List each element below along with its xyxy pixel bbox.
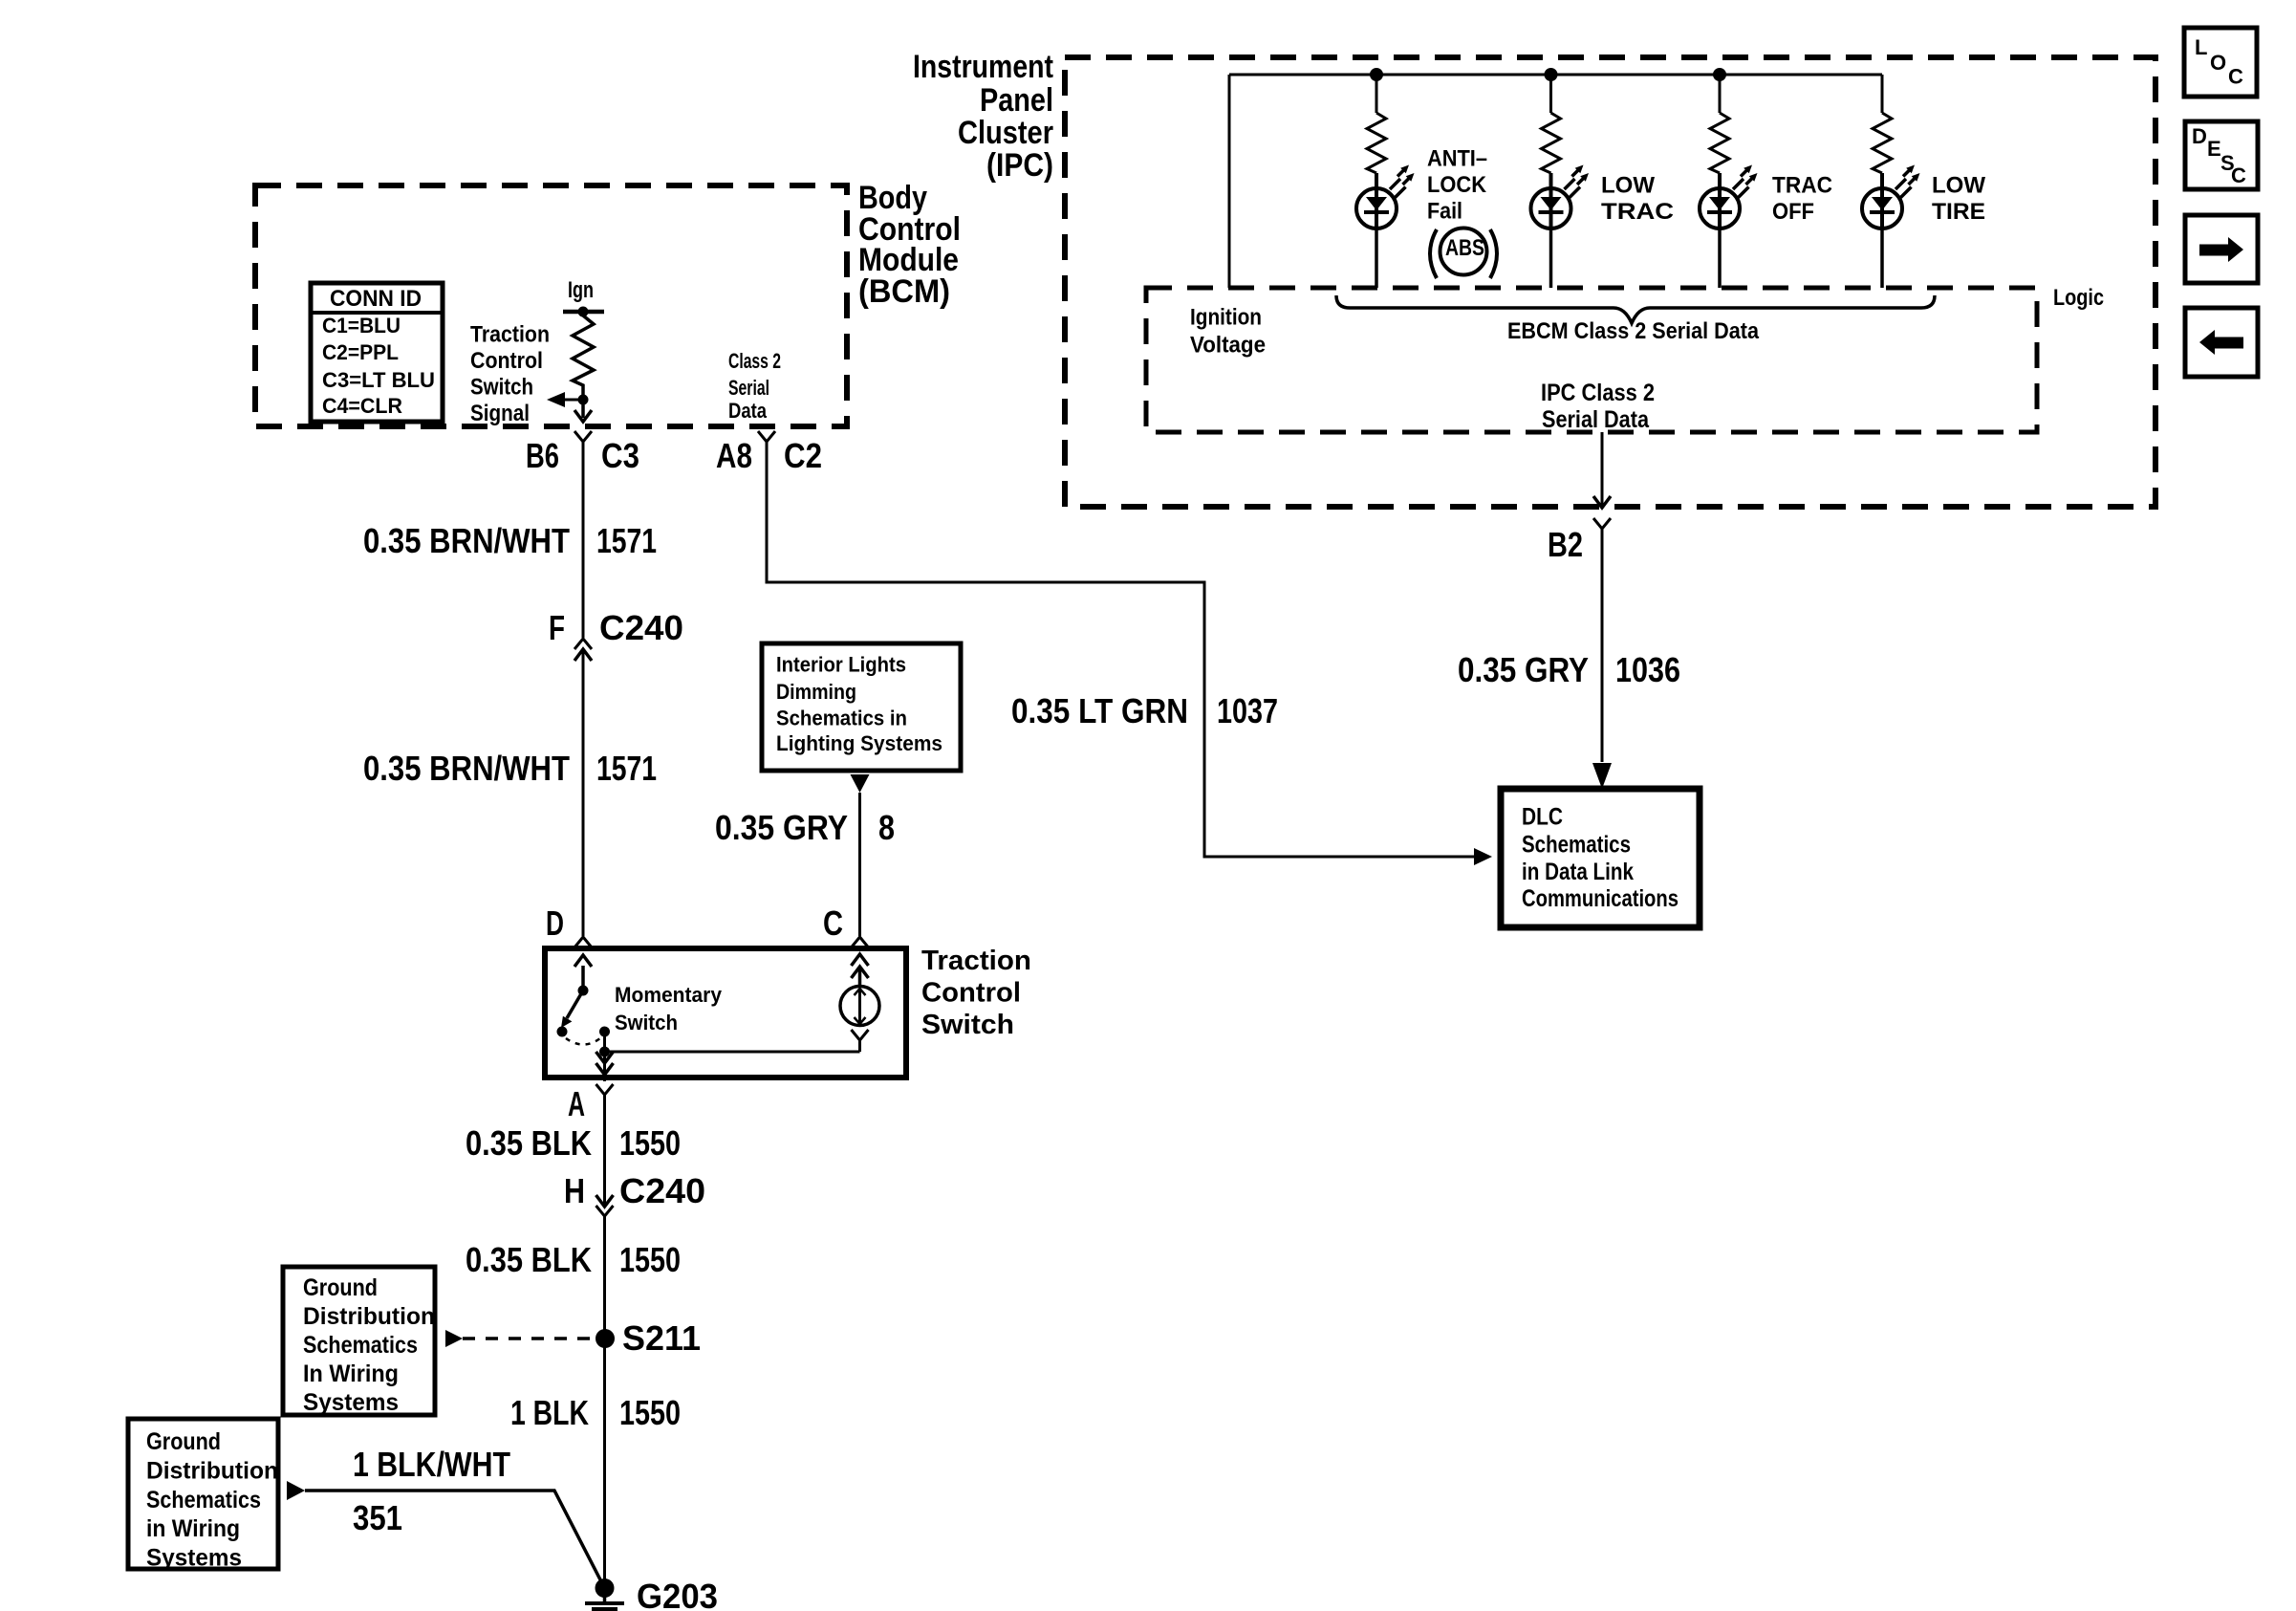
svg-text:1571: 1571 [596,749,657,788]
svg-text:0.35 GRY: 0.35 GRY [1458,650,1589,689]
svg-text:C2=PPL: C2=PPL [322,340,399,364]
svg-text:C240: C240 [619,1171,705,1210]
svg-text:S211: S211 [622,1318,701,1358]
svg-text:O: O [2210,51,2226,75]
svg-text:IPC Class 2: IPC Class 2 [1541,380,1655,406]
svg-text:Interior Lights: Interior Lights [776,653,906,677]
svg-text:H: H [564,1171,585,1210]
svg-text:Communications: Communications [1522,885,1679,912]
svg-text:Systems: Systems [146,1545,242,1572]
svg-text:Fail: Fail [1427,199,1462,225]
svg-text:Dimming: Dimming [776,680,856,704]
svg-text:C1=BLU: C1=BLU [322,314,401,337]
svg-text:Switch: Switch [615,1011,678,1034]
svg-text:B6: B6 [526,436,559,475]
svg-text:in Wiring: in Wiring [146,1515,240,1542]
svg-text:LOW: LOW [1932,173,1985,199]
svg-text:in Data Link: in Data Link [1522,859,1634,885]
svg-text:Ground: Ground [303,1274,378,1301]
svg-text:B2: B2 [1548,525,1583,564]
svg-text:Traction: Traction [470,322,550,348]
svg-text:Serial: Serial [728,376,769,400]
svg-text:CONN ID: CONN ID [330,286,422,312]
svg-text:0.35 BLK: 0.35 BLK [466,1123,592,1163]
svg-text:Logic: Logic [2053,285,2104,311]
svg-text:351: 351 [353,1498,402,1537]
svg-text:Control: Control [921,978,1021,1009]
svg-text:TRAC: TRAC [1772,173,1832,199]
svg-text:1037: 1037 [1217,691,1278,730]
svg-text:C4=CLR: C4=CLR [322,394,402,418]
svg-text:Systems: Systems [303,1389,399,1416]
svg-text:L: L [2195,35,2207,59]
svg-text:(BCM): (BCM) [858,273,950,310]
svg-text:D: D [546,903,564,943]
svg-text:Traction: Traction [921,946,1031,976]
svg-text:Instrument: Instrument [913,49,1053,85]
svg-text:Serial Data: Serial Data [1542,406,1650,433]
svg-text:In Wiring: In Wiring [303,1361,399,1387]
svg-text:Control: Control [470,348,543,374]
svg-text:C: C [823,903,843,943]
svg-text:G203: G203 [637,1577,718,1611]
svg-text:1 BLK: 1 BLK [510,1393,589,1432]
svg-text:A8: A8 [716,436,752,475]
svg-text:0.35 BRN/WHT: 0.35 BRN/WHT [363,749,570,788]
svg-text:Switch: Switch [470,375,533,401]
svg-text:8: 8 [878,808,895,847]
svg-text:Schematics: Schematics [1522,832,1631,859]
svg-text:0.35 BRN/WHT: 0.35 BRN/WHT [363,521,570,560]
svg-text:C240: C240 [599,608,683,647]
svg-text:0.35 LT GRN: 0.35 LT GRN [1011,691,1188,730]
svg-text:Ign: Ign [568,277,594,303]
svg-text:Class 2: Class 2 [728,349,781,373]
svg-text:Distribution: Distribution [146,1458,278,1485]
svg-text:ABS: ABS [1445,235,1484,261]
svg-text:Lighting Systems: Lighting Systems [776,731,942,755]
svg-text:0.35 BLK: 0.35 BLK [466,1240,592,1279]
svg-text:Cluster: Cluster [958,115,1053,151]
svg-text:LOW: LOW [1601,173,1655,199]
svg-text:1550: 1550 [619,1393,681,1432]
svg-text:Schematics: Schematics [146,1487,261,1513]
svg-text:A: A [568,1084,585,1123]
svg-text:1571: 1571 [596,521,657,560]
svg-text:ANTI–: ANTI– [1427,146,1487,172]
svg-text:Ignition: Ignition [1190,305,1262,331]
svg-text:Data: Data [728,399,768,423]
svg-text:Voltage: Voltage [1190,333,1266,359]
svg-text:D: D [2192,124,2207,148]
svg-text:Switch: Switch [921,1010,1014,1040]
svg-text:C3=LT BLU: C3=LT BLU [322,368,435,392]
svg-text:OFF: OFF [1772,199,1814,225]
svg-text:Schematics in: Schematics in [776,707,907,730]
svg-text:Momentary: Momentary [615,983,723,1007]
svg-text:Distribution: Distribution [303,1303,435,1330]
svg-text:1550: 1550 [619,1123,681,1163]
svg-text:0.35 GRY: 0.35 GRY [715,808,848,847]
svg-text:EBCM Class 2 Serial Data: EBCM Class 2 Serial Data [1507,318,1760,344]
svg-text:Schematics: Schematics [303,1332,418,1359]
svg-text:C: C [2228,65,2243,89]
svg-text:DLC: DLC [1522,804,1563,831]
svg-text:TIRE: TIRE [1932,199,1985,225]
svg-text:C: C [2231,163,2246,187]
svg-text:F: F [549,608,565,647]
svg-text:Panel: Panel [980,82,1053,119]
svg-text:Signal: Signal [470,401,530,426]
svg-text:LOCK: LOCK [1427,172,1487,198]
svg-text:1036: 1036 [1615,650,1680,689]
svg-text:C2: C2 [784,436,822,475]
svg-text:Ground: Ground [146,1428,221,1455]
svg-text:(IPC): (IPC) [986,147,1053,184]
svg-text:1 BLK/WHT: 1 BLK/WHT [353,1445,510,1484]
svg-text:1550: 1550 [619,1240,681,1279]
svg-text:E: E [2207,137,2221,161]
svg-text:C3: C3 [601,436,639,475]
svg-text:TRAC: TRAC [1601,199,1674,225]
